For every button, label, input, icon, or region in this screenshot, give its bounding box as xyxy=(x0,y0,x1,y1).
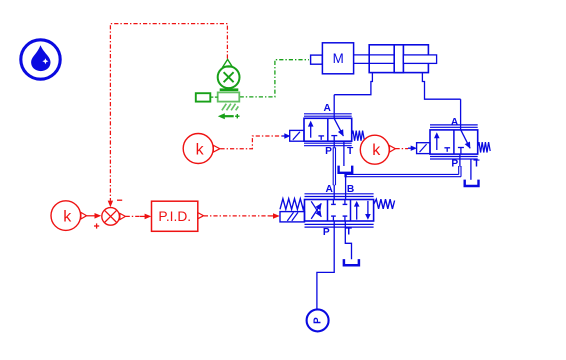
wire right valve A up xyxy=(460,99,462,130)
rod inside cylinder left xyxy=(369,55,394,64)
arrowhead into summing junction xyxy=(108,201,113,208)
pipe main valve B to right valve P xyxy=(344,166,461,177)
source k2 (left pilot) xyxy=(183,134,220,164)
minus sign xyxy=(117,199,122,201)
svg-text:M: M xyxy=(333,51,344,66)
blue arrow into left pilot solenoid xyxy=(282,135,285,137)
wire left valve A up xyxy=(333,95,335,119)
svg-text:k: k xyxy=(196,141,205,158)
wire cylinder left port to left valve A xyxy=(334,73,372,95)
wire main valve T to tank xyxy=(345,221,351,259)
svg-text:P: P xyxy=(325,146,332,157)
wire left valve T to tank xyxy=(343,141,345,166)
tank under left pilot valve xyxy=(339,166,353,173)
svg-text:P: P xyxy=(323,227,330,238)
wire summing junction to PID xyxy=(120,213,126,219)
piston xyxy=(394,45,403,73)
wire main valve P to pump xyxy=(317,221,334,309)
svg-text:T: T xyxy=(473,158,480,169)
pump P xyxy=(307,309,329,331)
svg-text:A: A xyxy=(326,184,334,195)
pipe left valve P to main valve A xyxy=(333,147,335,185)
spring left pilot valve xyxy=(352,131,365,141)
tank under main valve xyxy=(344,259,359,265)
svg-text:T: T xyxy=(346,226,353,237)
spring right pilot valve xyxy=(478,142,491,152)
svg-text:k: k xyxy=(63,208,72,225)
solenoid main valve (proportional) xyxy=(280,212,305,222)
wire right valve P stub xyxy=(459,154,461,166)
piston rod right xyxy=(403,55,436,64)
svg-text:B: B xyxy=(347,184,354,195)
wire k1 to summing junction xyxy=(87,215,95,217)
piston rod left xyxy=(354,55,395,64)
blue arrow into right pilot solenoid xyxy=(408,147,411,149)
wire: red feedback from transducer to summing junction xyxy=(110,24,227,201)
svg-text:A: A xyxy=(324,103,332,114)
green wire transducer to mass xyxy=(240,60,309,97)
svg-text:P: P xyxy=(312,317,323,324)
wire main valve port A up xyxy=(333,185,335,200)
svg-text:T: T xyxy=(347,146,354,157)
wire red k circle to left pilot solenoid xyxy=(220,136,281,149)
spring main valve right xyxy=(374,199,395,209)
spring main valve left xyxy=(280,199,305,210)
wire main valve port B up xyxy=(345,174,347,199)
svg-text:P: P xyxy=(451,158,458,169)
svg-text:A: A xyxy=(451,117,459,128)
fluid drop icon xyxy=(21,40,60,79)
summing junction xyxy=(94,208,119,229)
solenoid left pilot valve xyxy=(290,130,304,141)
right pilot valve 3/2 xyxy=(430,125,478,159)
wire red k circle to right pilot solenoid xyxy=(396,148,409,150)
svg-text:P.I.D.: P.I.D. xyxy=(158,209,191,224)
wire right valve T to tank xyxy=(470,159,472,180)
main proportional 4/3 valve xyxy=(305,194,374,227)
wire left valve P stub xyxy=(333,141,335,148)
solenoid right pilot valve xyxy=(417,143,430,154)
wire cylinder right port to right valve A xyxy=(422,73,460,100)
mass block M with rod stub xyxy=(311,43,354,74)
svg-text:k: k xyxy=(372,142,381,159)
position transducer xyxy=(196,59,240,119)
source k1 xyxy=(51,201,87,231)
wire PID to main valve solenoid xyxy=(204,215,270,217)
PID controller xyxy=(152,201,204,231)
tank under right pilot valve xyxy=(465,180,479,186)
source k3 (right pilot) xyxy=(360,135,395,164)
cylinder body xyxy=(369,45,428,73)
left pilot valve 3/2 xyxy=(304,114,352,146)
